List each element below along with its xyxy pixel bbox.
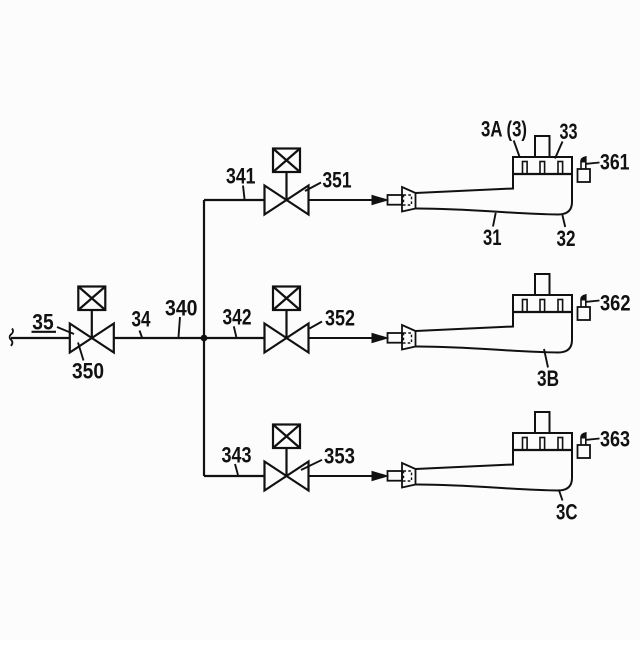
svg-text:35: 35 [32, 310, 53, 335]
svg-text:3A (3): 3A (3) [481, 117, 527, 142]
svg-text:32: 32 [557, 226, 576, 251]
svg-text:352: 352 [325, 306, 355, 331]
svg-text:340: 340 [165, 296, 198, 321]
svg-text:342: 342 [223, 305, 252, 330]
svg-text:351: 351 [323, 168, 352, 193]
svg-text:3B: 3B [537, 366, 559, 391]
svg-text:341: 341 [226, 164, 256, 189]
svg-text:363: 363 [600, 427, 630, 452]
svg-text:33: 33 [560, 119, 578, 144]
svg-text:3C: 3C [556, 500, 578, 525]
svg-text:350: 350 [72, 359, 104, 384]
svg-text:34: 34 [132, 307, 151, 332]
svg-text:353: 353 [324, 444, 355, 469]
svg-text:362: 362 [600, 291, 631, 316]
svg-text:361: 361 [600, 150, 630, 175]
svg-text:343: 343 [222, 443, 252, 468]
svg-text:31: 31 [483, 225, 502, 250]
